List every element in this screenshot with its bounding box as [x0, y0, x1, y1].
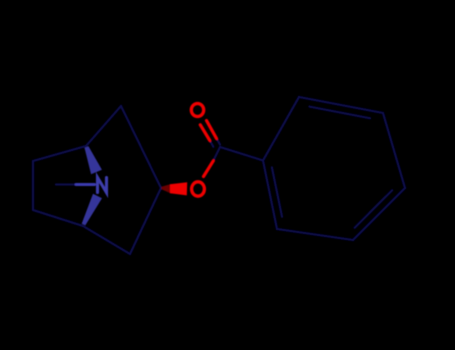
benzene edge V5-V6	[277, 229, 353, 240]
bond C2-C3	[121, 106, 161, 188]
benzene edge V1-V2	[263, 97, 299, 161]
bond carbonylC-ipso	[220, 147, 263, 161]
ester O label	[192, 182, 205, 196]
bond C=O offset navy stub	[210, 141, 214, 147]
N-CH3 bright half	[76, 183, 95, 186]
bond C=O main navy stub	[217, 139, 221, 145]
wedge N-C1	[85, 146, 102, 174]
benzene edge V3-V4	[383, 113, 405, 188]
benzene inner double bond V2-V3	[310, 107, 371, 119]
benzene edge V6-V1	[263, 161, 277, 230]
bond C5-C6	[33, 210, 83, 226]
bond N-CH3 dark half	[56, 183, 76, 185]
wedge C3-O dark tip	[162, 184, 172, 194]
bond C6-C7	[32, 161, 34, 210]
bond C1-C2	[86, 106, 121, 146]
bond esterO-C navy half	[213, 147, 220, 161]
benzene inner double bond V4-V5	[355, 190, 393, 228]
wire	[33, 97, 405, 254]
wedge N-C5	[82, 194, 102, 226]
esterO-C red half	[204, 161, 214, 177]
bond C7-C1	[33, 146, 86, 161]
N label	[98, 178, 107, 193]
C=O double bond red main	[207, 121, 217, 139]
carbonyl O label	[191, 104, 203, 117]
wedge C3-O red body	[170, 182, 187, 195]
bond C3-C4	[130, 188, 161, 254]
benzene inner double bond V6-V1	[272, 167, 282, 216]
bond C4-C5	[83, 226, 130, 254]
benzene edge V4-V5	[353, 188, 405, 240]
benzene edge V2-V3	[299, 97, 383, 113]
C=O double bond red offset	[200, 125, 210, 141]
